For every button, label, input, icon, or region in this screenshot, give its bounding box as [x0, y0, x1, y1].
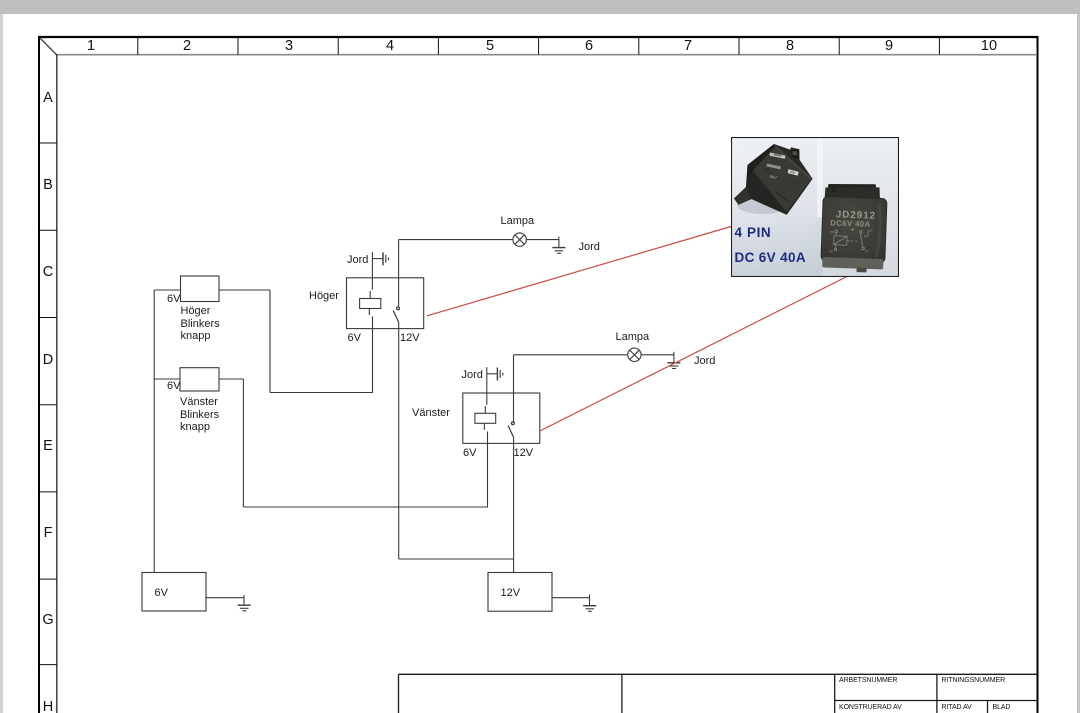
svg-text:30: 30: [864, 249, 868, 253]
svg-text:DC 6V 40A: DC 6V 40A: [735, 250, 806, 265]
svg-text:4 PIN: 4 PIN: [735, 225, 772, 240]
svg-text:86: 86: [829, 249, 833, 253]
svg-text:85: 85: [830, 230, 834, 234]
svg-text:DC6V 40A: DC6V 40A: [830, 218, 871, 228]
